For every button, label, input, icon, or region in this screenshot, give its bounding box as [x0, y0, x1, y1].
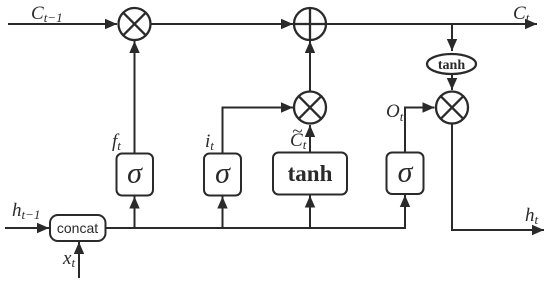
svg-text:σ: σ	[127, 157, 143, 190]
wire bus stub to sigma1	[134, 197, 136, 229]
svg-text:Ct−1: Ct−1	[31, 3, 63, 25]
tanh box text	[288, 161, 333, 186]
wire C_t output	[326, 23, 537, 25]
wire bus stub to tanh box	[309, 196, 311, 229]
label h_t	[525, 205, 539, 227]
svg-text:σ: σ	[398, 156, 414, 189]
sigma box 3 (output gate)	[387, 153, 424, 195]
svg-text:ht: ht	[525, 205, 539, 227]
label x_t	[62, 248, 75, 270]
svg-text:Ot: Ot	[386, 101, 404, 124]
concat box	[50, 215, 106, 241]
label C_t	[513, 3, 530, 25]
wire x_t input	[78, 242, 80, 278]
sigma box 2 (input gate)	[204, 154, 241, 196]
add node	[294, 8, 326, 40]
tanh ellipse	[427, 54, 476, 74]
multiply node 3 (output)	[436, 92, 468, 124]
svg-text:Ct: Ct	[513, 3, 530, 25]
wire h_{t-1} input	[5, 227, 49, 229]
svg-text:σ: σ	[215, 157, 231, 190]
multiply node 1 (forget)	[119, 8, 151, 40]
wire tanh box to multiply2	[309, 125, 311, 152]
svg-text:tanh: tanh	[288, 161, 333, 186]
svg-text:ht−1: ht−1	[12, 200, 40, 222]
svg-text:tanh: tanh	[438, 58, 465, 73]
wire multiply2 up to add node	[309, 41, 311, 92]
svg-text:it: it	[205, 131, 214, 153]
tanh box (candidate)	[273, 153, 347, 195]
wire sigma2 to multiply2 (input gate)	[223, 108, 294, 154]
label i_t	[205, 131, 214, 153]
wire top between multiply and add	[150, 23, 293, 25]
svg-text:ft: ft	[112, 131, 121, 153]
sigma glyph 3	[398, 156, 414, 189]
svg-text:~: ~	[292, 121, 302, 142]
label f_t	[112, 131, 121, 153]
multiply node 2 (input)	[294, 92, 326, 124]
wire h_t output	[452, 124, 544, 231]
tanh ellipse text	[438, 58, 465, 73]
wire sigma1 to multiply1 (forget gate)	[134, 41, 136, 153]
wire sigma3 to multiply3 (output gate)	[405, 108, 435, 153]
wire tanh ellipse to multiply node	[451, 75, 453, 90]
label h_{t-1}	[12, 200, 40, 222]
sigma glyph 1	[127, 157, 143, 190]
wire bus stub to sigma2	[222, 197, 224, 229]
wire bus turn up to sigma3	[404, 195, 406, 229]
wire branch down to tanh ellipse	[451, 24, 453, 51]
label C~_t (candidate)	[290, 121, 307, 152]
wire C_{t-1} input	[8, 23, 117, 25]
wire bus from concat	[106, 227, 406, 229]
svg-text:concat: concat	[57, 220, 98, 236]
sigma box 1 (forget gate)	[117, 154, 154, 196]
sigma glyph 2	[215, 157, 231, 190]
concat text	[57, 220, 98, 236]
label C_{t-1}	[31, 3, 63, 25]
svg-text:xt: xt	[62, 248, 75, 270]
label O_t	[386, 101, 404, 124]
